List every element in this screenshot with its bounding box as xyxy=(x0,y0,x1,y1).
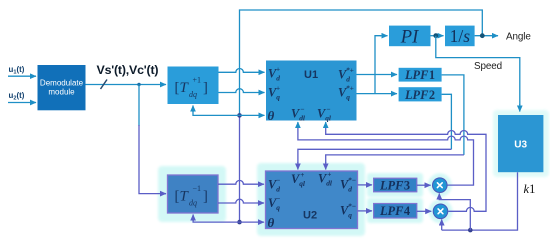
wire theta into U2 xyxy=(240,221,265,223)
node k1 label xyxy=(524,182,536,196)
wire k1 from U3 bottom to multipliers xyxy=(442,172,518,230)
LPF4 block xyxy=(374,204,417,219)
svg-text:dq: dq xyxy=(189,90,197,99)
wire theta into U1 xyxy=(240,114,265,116)
halo behind LPF4 block xyxy=(367,198,423,223)
wire k1 branch up into M1 bottom xyxy=(439,193,470,230)
U1 label Vq+ xyxy=(268,84,280,102)
svg-text:Vq−: Vq− xyxy=(268,194,281,212)
wire U2 Vq*- to LPF4 xyxy=(358,210,373,212)
svg-text:U1: U1 xyxy=(304,69,318,81)
halo behind LPF3 block xyxy=(367,173,423,197)
svg-text:u1(t): u1(t) xyxy=(9,65,25,75)
U1 label theta xyxy=(268,108,275,123)
svg-text:U2: U2 xyxy=(303,210,317,222)
halo behind U2 block xyxy=(257,163,365,236)
wire T_dq-1 out Vd- to U2 (hop) xyxy=(218,180,264,184)
svg-text:Vql−: Vql− xyxy=(317,105,332,123)
wire theta into T_dq+1 bottom xyxy=(193,106,240,116)
halo behind multiplier M2 xyxy=(429,199,453,223)
U1 label Vql- xyxy=(317,105,332,123)
wire T_dq-1 out Vq- to U2 (hop) xyxy=(218,199,264,203)
U1 label Vd+ xyxy=(268,65,280,83)
svg-text:LPF3: LPF3 xyxy=(379,178,410,192)
wire theta feedback rail: vertical from top rail down to theta junctions xyxy=(240,10,483,115)
wire U2 Vd*- to LPF3 xyxy=(358,184,373,186)
svg-text:Demodulate: Demodulate xyxy=(40,79,84,88)
U2 label theta xyxy=(268,215,275,230)
wire U1 Vq*+ out to LPF2 xyxy=(357,93,398,95)
node Speed label xyxy=(474,61,502,72)
U1 label Vdl- xyxy=(291,105,306,123)
svg-text:Angle: Angle xyxy=(506,31,531,42)
U1 block xyxy=(266,61,357,121)
wire line4: LPF1 out to U2 Vdl+ xyxy=(326,155,464,170)
wire U1 Vd*+ out to LPF1 xyxy=(357,74,398,76)
svg-text:u2(t): u2(t) xyxy=(9,91,25,101)
LPF2 block xyxy=(399,87,442,102)
svg-text:LPF1: LPF1 xyxy=(404,68,435,82)
multiplier M1 xyxy=(433,178,448,193)
svg-text:PI: PI xyxy=(400,28,419,48)
halo behind U3 block xyxy=(493,110,549,177)
svg-text:]: ] xyxy=(203,189,208,205)
wire Vs,Vc branch down to T_dq-1 xyxy=(139,85,166,194)
svg-text:module: module xyxy=(48,88,75,97)
junction speed branch xyxy=(433,33,438,38)
wire 1/s to Angle xyxy=(475,35,498,37)
wire Vq*+ branch up to PI xyxy=(375,36,388,94)
wire Vs'(t),Vc'(t) from demodulate to T_dq+1 xyxy=(86,84,167,86)
svg-text:+1: +1 xyxy=(193,76,202,85)
wire LPF1 out down to line4 xyxy=(442,75,464,155)
wire LPF3 to M1 xyxy=(417,184,431,186)
svg-text:θ: θ xyxy=(268,215,275,230)
wire k1 into M2 bottom xyxy=(441,219,443,230)
wire LPF4 to M2 xyxy=(417,210,432,212)
U3 block xyxy=(498,115,543,172)
LPF1 block xyxy=(399,68,442,82)
svg-text:U3: U3 xyxy=(514,139,527,150)
svg-text:Vd+: Vd+ xyxy=(268,65,280,83)
wire Speed branch to U3 xyxy=(436,36,520,112)
wire PI to 1/s xyxy=(431,35,444,37)
junction theta lower xyxy=(237,220,242,225)
svg-text:Vs'(t),Vc'(t): Vs'(t),Vc'(t) xyxy=(97,63,159,77)
wire theta into T_dq-1 bottom xyxy=(193,215,239,223)
halo behind multiplier M1 xyxy=(428,173,452,197)
multiplier M2 xyxy=(433,204,448,219)
svg-text:Vq+: Vq+ xyxy=(268,84,280,102)
svg-text:Vd−: Vd− xyxy=(268,176,281,194)
node u2(t) label xyxy=(9,91,25,101)
node Angle label xyxy=(506,31,531,42)
wire LPF2 out down to line3 xyxy=(442,94,452,149)
integrator block 1/s xyxy=(445,26,475,47)
U1 label Vd*+ out xyxy=(338,66,354,84)
svg-text:dq: dq xyxy=(189,199,197,208)
svg-text:LPF4: LPF4 xyxy=(379,204,410,218)
U1 label Vq*+ out xyxy=(338,84,354,102)
wire line1: M2 output up to U1 Vql- (hops over LPF verticals) xyxy=(326,122,486,211)
svg-text:k1: k1 xyxy=(524,182,536,196)
junction angle rail branch xyxy=(480,33,485,38)
junction k1 branch xyxy=(468,228,473,233)
U2 block xyxy=(266,171,358,229)
U2 label Vq*- out xyxy=(340,202,357,220)
svg-text:Vdl−: Vdl− xyxy=(291,105,306,123)
U2 label Vdl+ xyxy=(318,170,333,188)
wire T_dq+1 out Vq+ to U1 (hop over theta line) xyxy=(219,89,265,93)
svg-text:LPF2: LPF2 xyxy=(404,88,435,102)
transform block T_dq-1 xyxy=(168,175,219,213)
wire line3: LPF2 out to U2 Vql+ xyxy=(298,149,452,169)
node u1(t) label xyxy=(9,65,25,75)
bus slash mark on Vs,Vc wire xyxy=(101,80,108,90)
PI block xyxy=(389,26,431,48)
halo behind T_dq-1 block xyxy=(158,166,226,222)
node Vs'(t),Vc'(t) label xyxy=(97,63,159,77)
svg-text:θ: θ xyxy=(268,108,275,123)
junction on Vs,Vc wire xyxy=(137,83,140,86)
Demodulate module block xyxy=(38,65,86,110)
wire u2 input xyxy=(8,102,36,104)
U2 label Vq- xyxy=(268,194,281,212)
wire T_dq+1 out Vd+ to U1 (hop over theta line) xyxy=(219,69,265,73)
wire line2: M1 output up to U1 Vdl- (hops over LPF verticals) xyxy=(298,122,474,185)
LPF3 block xyxy=(374,178,417,192)
svg-text:Speed: Speed xyxy=(474,61,502,72)
wire u1 input xyxy=(8,75,36,77)
U2 label Vd- xyxy=(268,176,281,194)
junction theta upper xyxy=(237,113,242,118)
svg-text:]: ] xyxy=(203,80,208,96)
transform block T_dq+1 xyxy=(168,67,219,105)
wire theta rail lower segment (purple) xyxy=(239,115,241,222)
U2 label Vd*- out xyxy=(340,176,357,194)
svg-text:Vql+: Vql+ xyxy=(291,170,306,188)
svg-text:−1: −1 xyxy=(193,184,202,193)
svg-text:Vdl+: Vdl+ xyxy=(318,170,333,188)
svg-text:1/s: 1/s xyxy=(450,26,471,46)
U2 label Vql+ xyxy=(291,170,306,188)
